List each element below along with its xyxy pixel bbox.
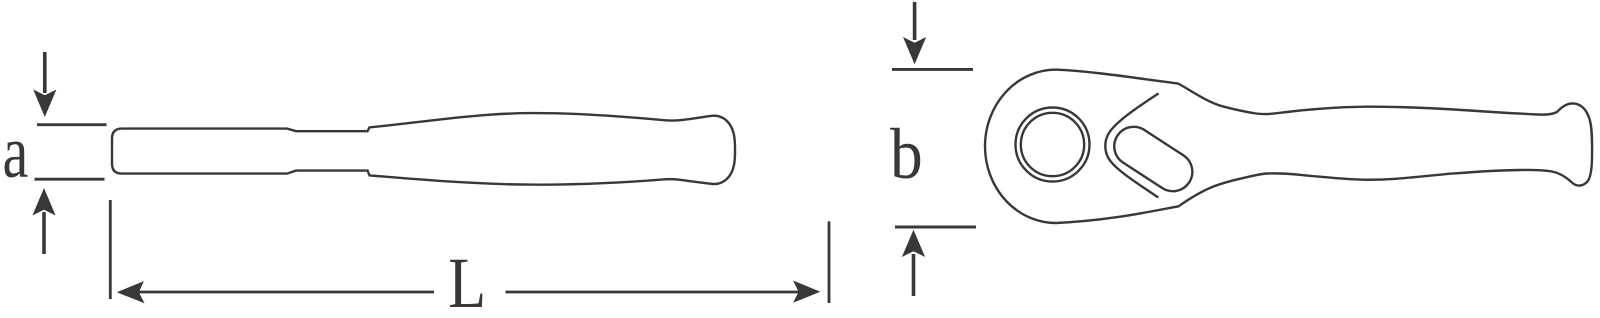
dimension L left arrowhead	[117, 281, 145, 303]
dimension L line left segment	[138, 291, 434, 294]
lever slot stadium	[1107, 119, 1200, 198]
drive boss inner circle	[1021, 113, 1084, 176]
dimension L left extension tick	[109, 200, 112, 299]
dimension b up-arrow stem	[912, 254, 916, 296]
dimension b top extension line	[892, 68, 973, 71]
svg-text:a: a	[2, 110, 28, 194]
dimension b up arrowhead	[902, 230, 925, 257]
dimension a bottom extension line	[35, 178, 105, 181]
ratchet side view outline	[112, 113, 735, 185]
dimension L line right segment	[506, 291, 800, 294]
dimension a up arrowhead	[32, 188, 55, 216]
dimension b bottom extension line	[895, 226, 976, 229]
dimension a top extension line	[37, 123, 107, 126]
dimension a up-arrow stem	[42, 212, 46, 254]
dimension a down-arrow stem	[43, 52, 47, 93]
svg-text:b: b	[890, 113, 923, 194]
dimension b down-arrow stem	[913, 2, 917, 40]
drive boss outer circle	[1016, 108, 1090, 182]
dimension a down arrowhead	[33, 90, 56, 118]
dimension b down arrowhead	[903, 37, 926, 64]
svg-text:L: L	[448, 243, 486, 318]
lever plate arc	[1105, 93, 1158, 197]
dimension L right arrowhead	[793, 281, 820, 303]
dimension L right extension tick	[828, 221, 831, 303]
ratchet top view head and handle outline	[985, 70, 1592, 223]
